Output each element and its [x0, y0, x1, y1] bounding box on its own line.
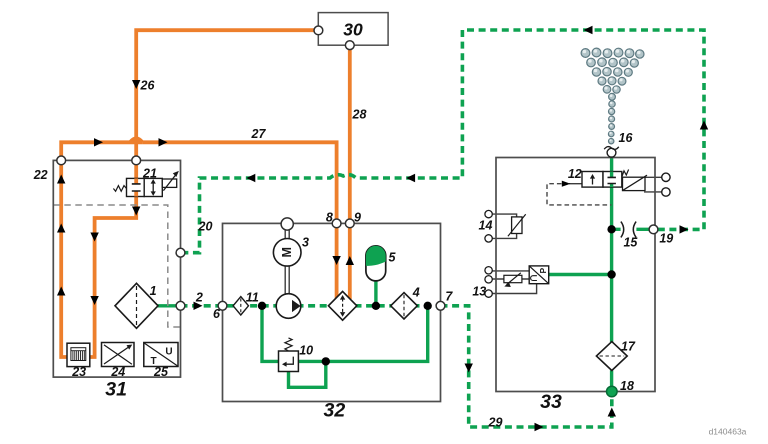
wire: orange from valve 21 outlet down and left into heater 23 [90, 191, 136, 357]
heater 23 [67, 343, 90, 366]
svg-text:4: 4 [412, 286, 420, 300]
port on unit 30 left [314, 26, 323, 35]
sensor 14 [485, 210, 526, 242]
arrow right on valve 12 pilot [562, 181, 571, 187]
port 20 [176, 248, 185, 257]
svg-text:16: 16 [619, 131, 634, 145]
wire: motor-pump shaft double line [285, 266, 289, 296]
enclosure 33: right unit border [496, 158, 655, 392]
port 9 [345, 219, 354, 228]
svg-text:17: 17 [621, 339, 636, 353]
svg-text:18: 18 [620, 379, 634, 393]
arrow down on line 8 [332, 256, 340, 265]
wire: green dashed main suction line ports 2-6-7 [181, 304, 441, 308]
wire: valve 12 internal pilot dashed line [547, 184, 611, 205]
terminal circles of solenoid 12 [662, 173, 670, 181]
enclosure 31: left unit border [53, 160, 180, 377]
wire: green solid from relief valve 10 outlet back to main line [298, 306, 427, 362]
wire: green solid from filter 1 to port 2 [157, 304, 181, 307]
port 8 [332, 219, 341, 228]
junction after filter 4 [424, 302, 432, 310]
port above motor 3 [281, 218, 293, 230]
wire: sensor 14 leads [492, 214, 516, 238]
arrow right on line 29 bottom [535, 423, 544, 431]
accumulator 5 [366, 246, 386, 281]
svg-text:2: 2 [195, 290, 203, 304]
junction at restrictor branch [607, 225, 615, 233]
port 6 [218, 301, 227, 310]
svg-text:14: 14 [479, 219, 493, 233]
wire: valve 12 pilot stub [569, 183, 582, 185]
arrow up on pilot loop right leg [700, 121, 708, 130]
filter 4 (diamond) [391, 293, 418, 319]
wire 28: orange line from unit 30 bottom port down as line 9 into cooler [348, 45, 352, 299]
wire: pressure switch 13 leads [492, 271, 536, 294]
svg-text:8: 8 [326, 211, 333, 225]
restrictor 15 [621, 222, 636, 238]
filter F1 (diamond 1) [115, 283, 158, 328]
spring of valve 21 [113, 186, 126, 192]
breather 11 (small diamond) [233, 297, 248, 315]
svg-text:29: 29 [488, 416, 503, 430]
svg-text:19: 19 [659, 232, 673, 246]
svg-text:33: 33 [540, 391, 562, 413]
junction after breather 11 [258, 302, 266, 310]
svg-text:6: 6 [213, 307, 221, 321]
svg-text:25: 25 [153, 365, 169, 379]
port 7 [436, 301, 445, 310]
heat exchanger (diamond between lines 8/9) [328, 291, 356, 320]
pump P1 [276, 294, 301, 319]
arrows up on heater return [57, 175, 65, 184]
arrow left on pilot loop top [584, 26, 593, 34]
svg-text:31: 31 [105, 379, 127, 401]
motor 3 [273, 239, 301, 267]
wire 26: orange pilot line from unit 30 left port down to valve 21 [136, 30, 318, 183]
wire: green solid main vertical in unit 33 from nozzle to filter 17 [610, 153, 613, 342]
svg-text:U: U [165, 347, 172, 358]
svg-text:32: 32 [324, 400, 346, 422]
junction at switch 13 branch [607, 270, 615, 278]
svg-text:28: 28 [352, 108, 367, 122]
junction at accumulator 5 [372, 302, 380, 310]
relief valve 10 [279, 338, 299, 372]
arrow down on line 29 left leg [465, 364, 473, 373]
svg-text:30: 30 [343, 20, 363, 40]
port 19 [649, 225, 658, 234]
arrow down below valve 21 [132, 207, 140, 216]
port 18 (green) [607, 386, 618, 397]
arrow right on line 22 top run [94, 138, 103, 146]
wire crossover: line 27 hops over line 26 [130, 138, 142, 142]
port on unit 31 top (line 26) [132, 156, 141, 165]
solenoid of valve 12 [623, 177, 646, 190]
wire: motor 3 stub double line to port on unit 32 border [285, 226, 289, 240]
port on unit 31 top (line 22) [57, 156, 66, 165]
wire: green solid from filter 17 to port 18 [610, 370, 613, 391]
svg-text:P: P [538, 267, 548, 273]
svg-text:1: 1 [150, 284, 157, 298]
svg-text:26: 26 [140, 79, 156, 93]
valve 21: 2/2 proportional valve [113, 171, 178, 197]
arrow right on line 27 [159, 138, 168, 146]
spring of valve 12 [622, 170, 629, 177]
svg-text:20: 20 [198, 220, 213, 234]
solenoid of valve 21 [162, 179, 176, 187]
svg-text:3: 3 [302, 236, 309, 250]
wire: green solid from pressure switch 13 to main line [549, 273, 612, 276]
arrows left on pilot loop y=178 run [406, 174, 415, 182]
wire: green dashed pilot loop from port 19 up over top to port 20 [185, 30, 704, 253]
wire 22: orange return from heater 23 up and right along top [61, 142, 130, 357]
junction on relief return line [322, 357, 330, 365]
spray nozzle 16 [604, 147, 619, 158]
enclosure 32: middle unit border [223, 223, 441, 401]
grease spray droplets above nozzle 16 [581, 48, 644, 144]
wire 29: green dashed from port 7 around to port 18 [441, 306, 612, 427]
filter 17 (diamond) [596, 342, 627, 371]
svg-text:d140463a: d140463a [709, 427, 747, 437]
svg-text:9: 9 [354, 211, 361, 225]
wire: green solid branch to relief valve 10 inlet [262, 306, 279, 362]
svg-text:M: M [280, 247, 294, 257]
svg-text:13: 13 [472, 285, 486, 299]
valve 12: 2/2 solenoid valve [582, 170, 670, 197]
arrow up on line 29 at port 18 [608, 408, 616, 417]
svg-text:27: 27 [251, 127, 267, 141]
wire: solenoid 12 terminal leads [640, 177, 662, 192]
arrow right on port 2 line [194, 302, 203, 310]
svg-text:22: 22 [33, 168, 48, 182]
svg-text:15: 15 [623, 235, 638, 249]
arrows down on heater feed [90, 233, 98, 242]
wire: green solid to restrictor 15 [612, 228, 650, 231]
arrow right after port 19 [680, 225, 689, 233]
svg-text:23: 23 [71, 365, 86, 379]
temperature transducer 25 [144, 343, 178, 368]
svg-text:10: 10 [299, 344, 313, 358]
cooler fan 24 [102, 343, 135, 367]
wire: green solid accumulator 5 stem [374, 280, 377, 306]
port 2 [176, 301, 185, 310]
ARROWS [57, 26, 708, 431]
box 30: control unit [318, 13, 388, 46]
enclosure: dashed sub-assembly boundary inside unit 31 [53, 205, 180, 327]
wire: green solid relief valve 10 drain loop [289, 361, 326, 387]
svg-text:21: 21 [142, 167, 157, 181]
port on unit 30 bottom (line 28) [345, 41, 354, 50]
arrow up on line 9 [346, 256, 354, 265]
svg-text:11: 11 [246, 291, 259, 305]
wire 27: orange supply line to port 8 down into cooler [142, 142, 336, 299]
svg-text:5: 5 [389, 251, 397, 265]
svg-text:24: 24 [110, 365, 125, 379]
pressure switch 13 [485, 266, 549, 297]
arrow down on line 26 [132, 80, 140, 89]
svg-text:7: 7 [445, 290, 453, 304]
svg-text:12: 12 [568, 167, 582, 181]
